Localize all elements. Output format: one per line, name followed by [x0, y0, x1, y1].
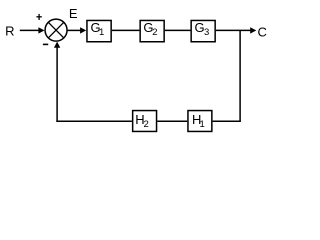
svg-text:2: 2 [144, 119, 149, 130]
wire G2 to G3 [165, 29, 191, 31]
summing junction (circle with X) [45, 19, 67, 41]
wire summing junction to G1 [67, 27, 86, 33]
minus sign [43, 43, 48, 45]
wire H2 to left corner [56, 120, 132, 122]
wire G3 to output C [216, 27, 256, 33]
svg-text:1: 1 [200, 119, 205, 130]
svg-text:1: 1 [99, 27, 104, 38]
wire R to summing junction [20, 27, 45, 33]
node E [69, 6, 78, 21]
wire takeoff to H1 [213, 120, 241, 122]
svg-text:E: E [69, 6, 78, 21]
node C [258, 24, 267, 39]
block H2 [133, 111, 157, 132]
svg-text:C: C [258, 24, 267, 39]
svg-text:R: R [5, 23, 14, 38]
block G1 [87, 20, 111, 42]
wire G1 to G2 [112, 29, 139, 31]
node R [5, 23, 14, 38]
svg-text:2: 2 [152, 27, 157, 38]
block H1 [188, 111, 212, 132]
plus sign [36, 14, 41, 20]
takeoff point / wire down from output line [239, 30, 241, 121]
wire up into summing junction [54, 42, 60, 122]
block G2 [140, 20, 164, 42]
wire H1 to H2 [157, 120, 187, 122]
svg-text:3: 3 [204, 27, 209, 38]
block G3 [191, 20, 215, 42]
